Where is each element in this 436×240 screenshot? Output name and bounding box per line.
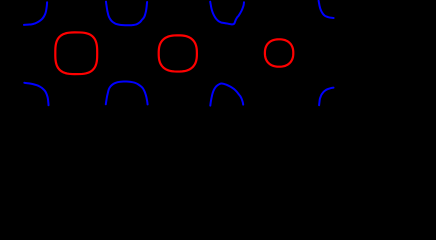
blue contour arc A (top-left quarter arc) xyxy=(24,2,47,25)
blue contour arch G (bottom, second arch) xyxy=(210,84,243,106)
red contour loop 3 (small circle) xyxy=(265,39,293,66)
red contour loop 1 (largest rounded square) xyxy=(55,32,97,74)
blue contour arc E (bottom-left quarter arc) xyxy=(24,83,48,106)
blue contour arc D (top-right half arc) xyxy=(319,1,334,18)
blue contour arch F (bottom, first full arch) xyxy=(106,82,148,105)
blue contour arc H (bottom-right half arc) xyxy=(319,88,333,106)
blue contour U-curve C (top, second U) xyxy=(210,2,244,25)
blue contour U-curve B (top, first full U) xyxy=(106,2,147,26)
red contour loop 2 (middle rounded square) xyxy=(159,35,197,71)
